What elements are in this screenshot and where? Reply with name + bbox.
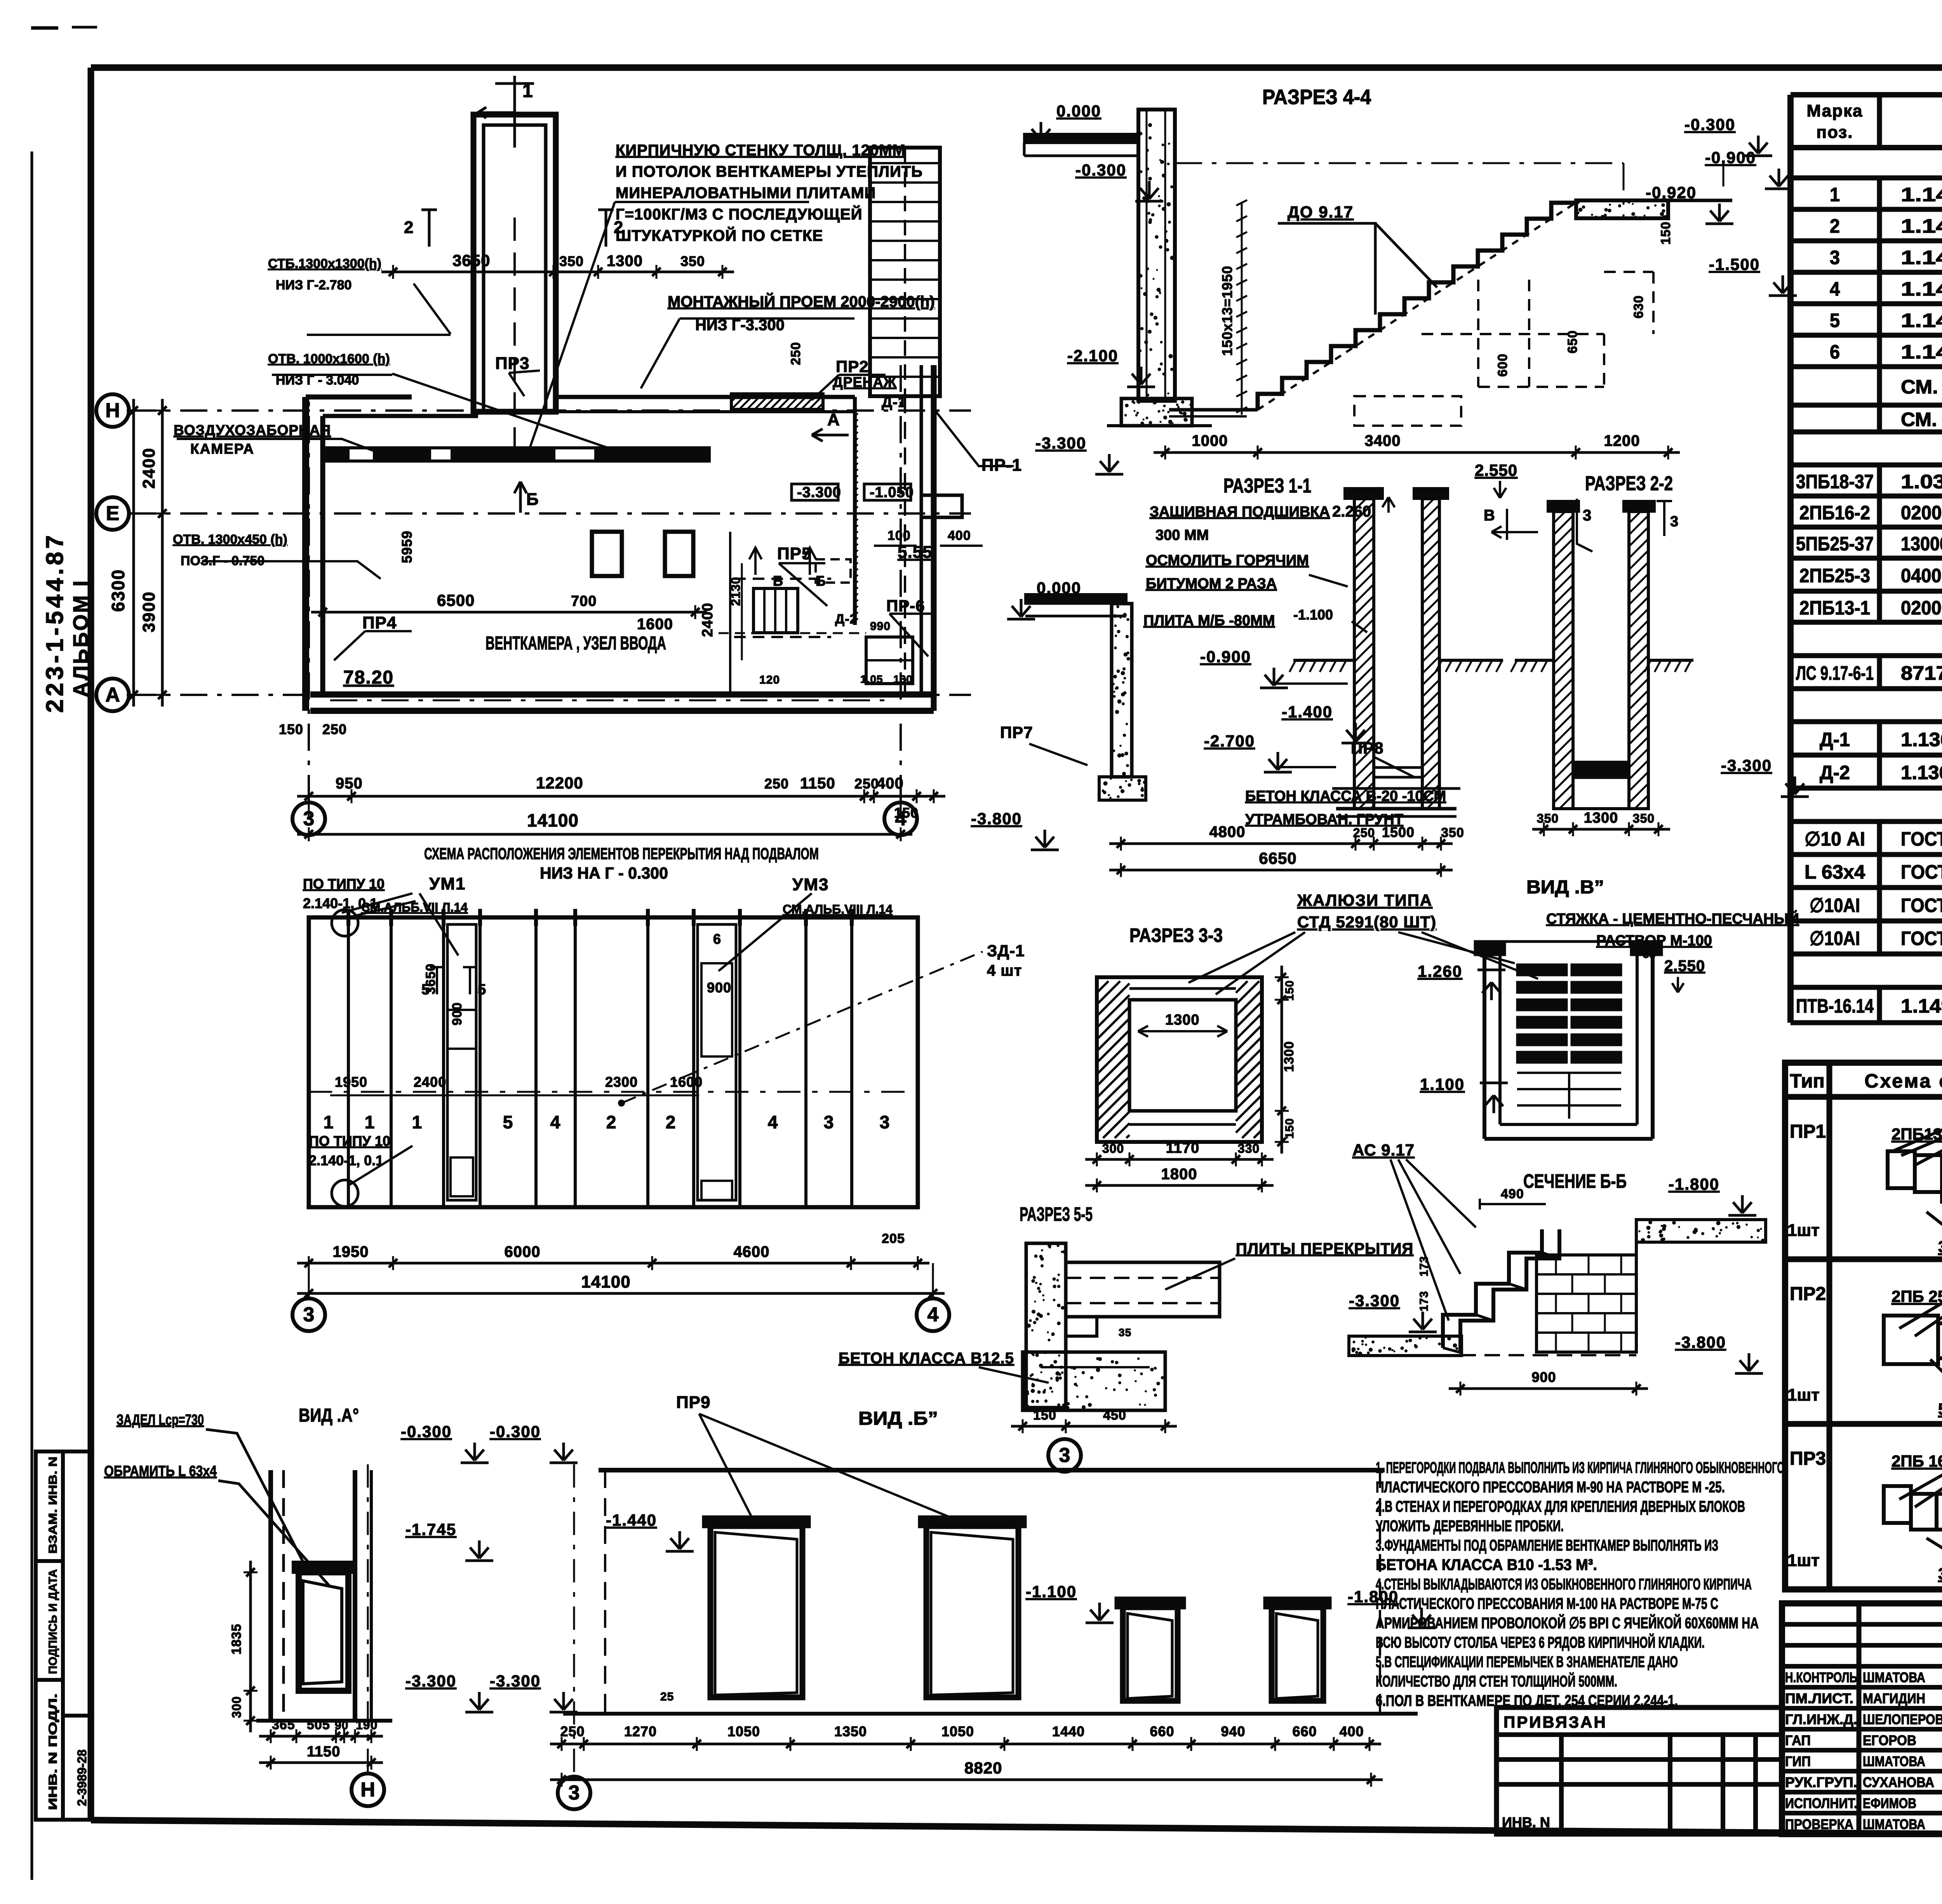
svg-text:150х13=1950: 150х13=1950 [1219, 266, 1235, 356]
svg-text:940: 940 [1221, 1723, 1245, 1739]
svg-text:700: 700 [571, 593, 597, 609]
svg-text:1500: 1500 [1382, 824, 1415, 840]
svg-text:ГОСТ 5781-82: ГОСТ 5781-82 [1901, 928, 1942, 949]
svg-text:130: 130 [893, 673, 913, 685]
svg-text:ГОСТ 8509-72*: ГОСТ 8509-72* [1901, 861, 1942, 883]
svg-text:4600: 4600 [734, 1243, 770, 1260]
svg-text:223-1-544.87: 223-1-544.87 [42, 532, 68, 713]
svg-text:ГИП: ГИП [1785, 1753, 1811, 1769]
svg-text:2: 2 [606, 1112, 617, 1132]
svg-text:поз.: поз. [1817, 123, 1853, 142]
svg-text:8717.0-84* 8717.1-84: 8717.0-84* 8717.1-84 [1901, 662, 1942, 684]
svg-text:250: 250 [764, 776, 789, 792]
svg-text:Б: Б [526, 490, 539, 509]
svg-text:350: 350 [1633, 811, 1655, 825]
svg-text:900: 900 [707, 980, 731, 996]
svg-text:4: 4 [895, 808, 907, 830]
svg-text:БЕТОН КЛАССА В-20 -10СМ: БЕТОН КЛАССА В-20 -10СМ [1245, 788, 1446, 804]
svg-text:ВИД .В”: ВИД .В” [1526, 877, 1604, 898]
svg-text:ВИД .Б”: ВИД .Б” [858, 1408, 938, 1429]
svg-text:ПЛАСТИЧЕСКОГО ПРЕССОВАНИЯ М-9: ПЛАСТИЧЕСКОГО ПРЕССОВАНИЯ М-90 НА РАСТВО… [1376, 1479, 1725, 1496]
svg-text:90: 90 [335, 1719, 348, 1732]
svg-text:РАЗРЕЗ 1-1: РАЗРЕЗ 1-1 [1223, 475, 1311, 497]
svg-text:600: 600 [1495, 353, 1510, 377]
svg-text:3: 3 [303, 1304, 315, 1326]
svg-text:РУК.ГРУП.: РУК.ГРУП. [1785, 1774, 1857, 1790]
svg-text:1: 1 [1830, 184, 1840, 205]
svg-text:Д-2: Д-2 [1820, 762, 1850, 783]
svg-text:СТД 5291(80 ШТ): СТД 5291(80 ШТ) [1297, 913, 1436, 931]
svg-text:150: 150 [1283, 1118, 1296, 1138]
svg-text:ПР1: ПР1 [1790, 1121, 1826, 1142]
svg-text:8820: 8820 [964, 1759, 1002, 1777]
svg-text:2ПБ 16-2 2шт(3шт): 2ПБ 16-2 2шт(3шт) [1892, 1452, 1942, 1470]
svg-text:ШМАТОВА: ШМАТОВА [1863, 1816, 1925, 1832]
svg-text:БЕТОНА КЛАССА В10 -1.53 М³.: БЕТОНА КЛАССА В10 -1.53 М³. [1376, 1556, 1597, 1573]
svg-text:НИЗ НА Г - 0.300: НИЗ НА Г - 0.300 [540, 864, 668, 882]
svg-text:-3.800: -3.800 [1675, 1333, 1726, 1351]
svg-text:2: 2 [404, 218, 414, 237]
svg-text:ПЛИТЫ ПЕРЕКРЫТИЯ: ПЛИТЫ ПЕРЕКРЫТИЯ [1236, 1240, 1413, 1257]
svg-text:-0.300: -0.300 [1075, 161, 1126, 179]
svg-text:6650: 6650 [1259, 849, 1296, 867]
svg-text:1.136-10: 1.136-10 [1901, 762, 1942, 783]
svg-text:НИЗ Г-3.300: НИЗ Г-3.300 [695, 317, 785, 334]
svg-text:УМ1: УМ1 [429, 874, 466, 893]
svg-text:ИСПОЛНИТ.: ИСПОЛНИТ. [1785, 1795, 1857, 1811]
svg-text:1шт: 1шт [1787, 1385, 1820, 1405]
svg-text:ЖАЛЮЗИ ТИПА: ЖАЛЮЗИ ТИПА [1297, 891, 1432, 909]
svg-text:РАСТВОР М-100: РАСТВОР М-100 [1596, 933, 1712, 949]
svg-text:150: 150 [1283, 980, 1296, 1001]
svg-text:3ПБ18-37: 3ПБ18-37 [1938, 1565, 1942, 1583]
svg-text:35: 35 [1643, 948, 1656, 960]
svg-text:350: 350 [680, 253, 705, 269]
svg-text:L 63х4: L 63х4 [1805, 861, 1865, 883]
svg-text:ГОСТ 5781-82: ГОСТ 5781-82 [1901, 895, 1942, 916]
svg-text:1270: 1270 [624, 1723, 657, 1739]
svg-text:950: 950 [336, 775, 363, 792]
svg-text:РАЗРЕЗ 4-4: РАЗРЕЗ 4-4 [1262, 85, 1371, 109]
svg-text:АЛЬБОМ I: АЛЬБОМ I [69, 579, 92, 697]
svg-text:1шт: 1шт [1787, 1551, 1820, 1570]
svg-text:1440: 1440 [1052, 1723, 1085, 1739]
svg-text:173: 173 [1418, 1256, 1430, 1276]
svg-text:Н.КОНТРОЛЬ: Н.КОНТРОЛЬ [1785, 1669, 1857, 1685]
svg-text:150: 150 [279, 721, 303, 737]
svg-text:1300: 1300 [1584, 810, 1618, 826]
svg-text:УМ3: УМ3 [792, 875, 829, 894]
svg-text:Д-2: Д-2 [835, 612, 857, 627]
svg-text:Схема сечения: Схема сечения [1864, 1070, 1942, 1092]
svg-text:2ПБ13-1 2шт(3шт): 2ПБ13-1 2шт(3шт) [1892, 1125, 1942, 1143]
svg-text:5: 5 [421, 982, 430, 998]
svg-text:СМ. АЛЬБОМ VII Л.14: СМ. АЛЬБОМ VII Л.14 [1901, 376, 1942, 398]
svg-text:ПР4: ПР4 [362, 613, 397, 632]
svg-text:3: 3 [303, 808, 315, 830]
svg-text:1.141-1 В.63: 1.141-1 В.63 [1901, 278, 1942, 300]
svg-text:1.149.1-4: 1.149.1-4 [1901, 995, 1942, 1017]
svg-text:2ПБ 25-3 2шт(3шт): 2ПБ 25-3 2шт(3шт) [1892, 1287, 1942, 1305]
svg-text:АС 9.17: АС 9.17 [1352, 1141, 1415, 1159]
svg-text:25: 25 [660, 1690, 674, 1703]
svg-text:330: 330 [1238, 1142, 1260, 1156]
svg-text:4: 4 [927, 1304, 939, 1326]
svg-text:150: 150 [1033, 1408, 1056, 1423]
svg-text:ПР9: ПР9 [676, 1393, 710, 1412]
svg-text:ШТУКАТУРКОЙ ПО СЕТКЕ: ШТУКАТУРКОЙ ПО СЕТКЕ [616, 226, 823, 244]
svg-text:35: 35 [1119, 1326, 1131, 1338]
svg-text:5: 5 [1830, 310, 1840, 331]
svg-text:Е: Е [106, 502, 120, 525]
svg-text:3ПБ18-37: 3ПБ18-37 [1796, 471, 1874, 493]
svg-text:ОСМОЛИТЬ ГОРЯЧИМ: ОСМОЛИТЬ ГОРЯЧИМ [1146, 552, 1309, 569]
svg-text:2.550: 2.550 [1475, 461, 1517, 479]
svg-text:3900: 3900 [139, 591, 158, 632]
svg-text:ВСЮ ВЫСОТУ СТОЛБА ЧЕРЕЗ 6 РЯДО: ВСЮ ВЫСОТУ СТОЛБА ЧЕРЕЗ 6 РЯДОВ КИРПИЧНО… [1376, 1633, 1705, 1651]
svg-text:1: 1 [412, 1112, 423, 1132]
svg-text:ПР-1: ПР-1 [981, 456, 1022, 475]
svg-text:ПО ТИПУ 10: ПО ТИПУ 10 [309, 1133, 390, 1149]
svg-text:4: 4 [1830, 278, 1840, 300]
svg-text:02000-82: 02000-82 [1901, 502, 1942, 524]
svg-text:12200: 12200 [536, 774, 583, 792]
svg-text:ВОЗДУХОЗАБОРНАЯ: ВОЗДУХОЗАБОРНАЯ [174, 422, 331, 438]
svg-text:ВЗАМ. ИНВ. N: ВЗАМ. ИНВ. N [47, 1457, 59, 1554]
svg-text:300: 300 [230, 1696, 244, 1718]
svg-text:505: 505 [307, 1718, 330, 1732]
svg-text:1950: 1950 [333, 1243, 369, 1260]
svg-text:1600: 1600 [670, 1074, 703, 1090]
svg-text:490: 490 [1501, 1187, 1524, 1201]
svg-text:5: 5 [503, 1112, 513, 1132]
svg-text:1350: 1350 [834, 1723, 867, 1739]
svg-text:6: 6 [713, 931, 721, 947]
svg-text:250: 250 [322, 721, 347, 737]
svg-text:120: 120 [759, 674, 780, 686]
svg-text:2.140-1, 0.1: 2.140-1, 0.1 [309, 1152, 383, 1168]
svg-text:БЕТОН КЛАССА В12.5: БЕТОН КЛАССА В12.5 [839, 1350, 1014, 1367]
svg-text:650: 650 [1565, 330, 1580, 353]
svg-text:2ПБ25-3: 2ПБ25-3 [1799, 565, 1870, 587]
svg-text:900: 900 [450, 1002, 465, 1025]
svg-text:900: 900 [1531, 1369, 1556, 1385]
svg-text:НИЗ Г-2.780: НИЗ Г-2.780 [276, 278, 352, 292]
svg-text:350: 350 [559, 253, 584, 269]
svg-text:ВИД .А°: ВИД .А° [299, 1405, 359, 1426]
svg-text:-0.300: -0.300 [401, 1422, 452, 1441]
svg-text:0.000: 0.000 [1056, 102, 1101, 120]
svg-text:ШМАТОВА: ШМАТОВА [1863, 1669, 1925, 1685]
svg-text:-1.500: -1.500 [1709, 255, 1760, 273]
svg-text:3: 3 [880, 1112, 890, 1132]
svg-text:-3.300: -3.300 [1035, 434, 1086, 452]
svg-text:УТРАМБОВАН. ГРУНТ: УТРАМБОВАН. ГРУНТ [1245, 811, 1403, 828]
svg-text:1300: 1300 [607, 252, 643, 270]
svg-text:173: 173 [1418, 1291, 1430, 1311]
svg-text:-3.800: -3.800 [971, 809, 1022, 828]
svg-text:ПРИВЯЗАН: ПРИВЯЗАН [1503, 1713, 1607, 1731]
svg-text:ЗАШИВНАЯ ПОДШИВКА: ЗАШИВНАЯ ПОДШИВКА [1150, 504, 1330, 520]
svg-text:ПОЗ.Г - 0.750: ПОЗ.Г - 0.750 [181, 553, 265, 568]
svg-text:1: 1 [324, 1112, 334, 1132]
svg-text:НИЗ Г - 3.040: НИЗ Г - 3.040 [276, 373, 359, 388]
svg-text:-2.100: -2.100 [1067, 346, 1118, 365]
svg-text:1.100: 1.100 [1420, 1075, 1465, 1093]
svg-text:1150: 1150 [800, 775, 835, 792]
svg-text:Д-1: Д-1 [882, 394, 907, 411]
svg-text:ПР2: ПР2 [1790, 1284, 1826, 1304]
svg-text:ШМАТОВА: ШМАТОВА [1863, 1753, 1925, 1769]
svg-text:-1.800: -1.800 [1669, 1175, 1719, 1193]
svg-text:2130: 2130 [729, 577, 743, 606]
svg-text:2.550: 2.550 [1664, 957, 1705, 975]
svg-text:КАМЕРА: КАМЕРА [190, 441, 254, 457]
svg-text:СУХАНОВА: СУХАНОВА [1863, 1774, 1934, 1790]
svg-text:1: 1 [522, 81, 533, 101]
svg-text:ЕФИМОВ: ЕФИМОВ [1863, 1795, 1916, 1811]
svg-text:РАЗРЕЗ 2-2: РАЗРЕЗ 2-2 [1585, 472, 1673, 495]
svg-text:-1.440: -1.440 [606, 1511, 657, 1529]
svg-text:5959: 5959 [399, 531, 415, 563]
svg-text:А: А [827, 410, 840, 429]
svg-text:-0.900: -0.900 [1705, 148, 1756, 167]
svg-text:5ПБ25-37: 5ПБ25-37 [1796, 533, 1874, 555]
svg-text:78.20: 78.20 [343, 667, 394, 688]
svg-text:14100: 14100 [527, 810, 579, 830]
svg-text:ЗАДЕЛ Lср=730: ЗАДЕЛ Lср=730 [117, 1412, 204, 1428]
svg-text:ПР7: ПР7 [1000, 723, 1033, 741]
svg-text:250: 250 [560, 1723, 585, 1739]
svg-text:ИНВ. N ПОДЛ.: ИНВ. N ПОДЛ. [47, 1693, 59, 1810]
svg-text:660: 660 [1292, 1723, 1317, 1739]
svg-text:КОЛИЧЕСТВО ДЛЯ СТЕН ТОЛЩИНОЙ: КОЛИЧЕСТВО ДЛЯ СТЕН ТОЛЩИНОЙ 500ММ. [1376, 1672, 1617, 1690]
svg-text:БИТУМОМ 2 РАЗА: БИТУМОМ 2 РАЗА [1146, 576, 1277, 592]
svg-text:5.В СПЕЦИФИКАЦИИ ПЕРЕМЫЧЕК В З: 5.В СПЕЦИФИКАЦИИ ПЕРЕМЫЧЕК В ЗНАМЕНАТЕЛЕ… [1376, 1653, 1678, 1671]
svg-text:6: 6 [1830, 341, 1840, 363]
svg-text:990: 990 [870, 620, 891, 633]
svg-text:СХЕМА РАСПОЛОЖЕНИЯ ЭЛЕМЕНТОВ П: СХЕМА РАСПОЛОЖЕНИЯ ЭЛЕМЕНТОВ ПЕРЕКРЫТИЯ … [424, 844, 819, 863]
svg-text:-3.300: -3.300 [490, 1672, 541, 1690]
svg-text:5ПБ 25-37: 5ПБ 25-37 [1938, 1400, 1942, 1418]
svg-text:5.55: 5.55 [898, 543, 933, 562]
svg-text:ПР8: ПР8 [1351, 739, 1384, 757]
svg-text:ПО ТИПУ 10: ПО ТИПУ 10 [303, 876, 385, 892]
svg-text:6.ПОЛ В ВЕНТКАМЕРЕ ПО ДЕТ. 254: 6.ПОЛ В ВЕНТКАМЕРЕ ПО ДЕТ. 254 СЕРИИ 2.2… [1376, 1692, 1678, 1709]
svg-text:-1.100: -1.100 [1293, 607, 1333, 623]
svg-text:ГОСТ 5781-82: ГОСТ 5781-82 [1901, 828, 1942, 850]
svg-text:МИНЕРАЛОВАТНЫМИ ПЛИТАМИ: МИНЕРАЛОВАТНЫМИ ПЛИТАМИ [616, 184, 876, 202]
svg-text:-0.300: -0.300 [490, 1422, 541, 1441]
svg-text:-1.050: -1.050 [870, 484, 914, 501]
svg-text:1050: 1050 [941, 1723, 974, 1739]
svg-text:1. ПЕРЕГОРОДКИ ПОДВАЛА ВЫПОЛНИ: 1. ПЕРЕГОРОДКИ ПОДВАЛА ВЫПОЛНИТЬ ИЗ КИРП… [1376, 1459, 1784, 1476]
svg-text:6000: 6000 [505, 1243, 541, 1260]
svg-text:1.038.1-1.1 070000-04: 1.038.1-1.1 070000-04 [1901, 471, 1942, 493]
svg-text:-3.300: -3.300 [405, 1672, 456, 1690]
svg-text:Н: Н [105, 399, 120, 422]
svg-text:Д-1: Д-1 [1820, 729, 1850, 750]
svg-text:1170: 1170 [1166, 1140, 1199, 1156]
svg-text:1.260: 1.260 [1418, 962, 1462, 980]
svg-text:1.136.5-19: 1.136.5-19 [1901, 729, 1942, 750]
svg-text:2400: 2400 [139, 447, 158, 489]
svg-text:3: 3 [1830, 247, 1840, 268]
svg-text:4 шт: 4 шт [987, 962, 1022, 979]
svg-text:3400: 3400 [1365, 432, 1401, 449]
svg-text:ОТВ. 1000х1600 (h): ОТВ. 1000х1600 (h) [268, 352, 390, 366]
svg-text:ПОДПИСЬ И ДАТА: ПОДПИСЬ И ДАТА [47, 1569, 59, 1674]
svg-text:1.144-1 В.63: 1.144-1 В.63 [1901, 341, 1942, 363]
svg-text:1800: 1800 [1161, 1166, 1197, 1183]
svg-text:МОНТАЖНЫЙ ПРОЕМ 2000-2900(h): МОНТАЖНЫЙ ПРОЕМ 2000-2900(h) [668, 292, 935, 310]
svg-text:2-3989-28: 2-3989-28 [75, 1749, 89, 1806]
svg-text:2.В СТЕНАХ И ПЕРЕГОРОДКАХ ДЛЯ: 2.В СТЕНАХ И ПЕРЕГОРОДКАХ ДЛЯ КРЕПЛЕНИЯ … [1376, 1498, 1745, 1515]
svg-text:Марка: Марка [1806, 101, 1863, 120]
svg-text:-1.100: -1.100 [1026, 1582, 1077, 1601]
svg-text:150: 150 [1658, 221, 1673, 245]
svg-text:Б: Б [773, 573, 783, 589]
svg-text:2ПБ13-1: 2ПБ13-1 [1799, 597, 1870, 619]
svg-text:1000: 1000 [1192, 432, 1228, 449]
svg-text:-3.300: -3.300 [797, 484, 841, 501]
svg-text:1835: 1835 [229, 1624, 244, 1655]
svg-text:ГАП: ГАП [1785, 1732, 1811, 1748]
svg-text:ДРЕНАЖ: ДРЕНАЖ [833, 374, 896, 390]
svg-text:1.05: 1.05 [860, 673, 883, 685]
svg-text:СТБ.1300х1300(h): СТБ.1300х1300(h) [268, 256, 381, 271]
svg-text:2: 2 [1830, 215, 1840, 237]
svg-text:1шт: 1шт [1787, 1221, 1820, 1240]
svg-text:ПЛАСТИЧЕСКОГО ПРЕССОВАНИЯ М-10: ПЛАСТИЧЕСКОГО ПРЕССОВАНИЯ М-100 НА РАСТВ… [1376, 1595, 1718, 1612]
svg-text:ИНВ. N: ИНВ. N [1502, 1814, 1550, 1830]
svg-text:3: 3 [1670, 513, 1679, 530]
svg-text:СТЯЖКА - ЦЕМЕНТНО-ПЕСЧАНЫЙ: СТЯЖКА - ЦЕМЕНТНО-ПЕСЧАНЫЙ [1546, 910, 1799, 927]
svg-text:1600: 1600 [637, 616, 673, 633]
svg-text:∅10 АI: ∅10 АI [1805, 828, 1865, 850]
svg-text:-1.400: -1.400 [1282, 703, 1333, 721]
svg-text:040010-82: 040010-82 [1901, 565, 1942, 587]
svg-text:3.ФУНДАМЕНТЫ ПОД ОБРАМЛЕНИЕ ВЕ: 3.ФУНДАМЕНТЫ ПОД ОБРАМЛЕНИЕ ВЕНТКАМЕР ВЫ… [1376, 1537, 1718, 1554]
svg-text:ОТВ. 1300х450 (h): ОТВ. 1300х450 (h) [173, 532, 287, 547]
svg-text:2: 2 [666, 1112, 676, 1132]
svg-text:300: 300 [1102, 1142, 1124, 1156]
svg-text:-1.745: -1.745 [405, 1520, 456, 1539]
svg-text:190: 190 [356, 1718, 378, 1732]
svg-text:ДО 9.17: ДО 9.17 [1288, 203, 1354, 221]
svg-text:СЕЧЕНИЕ Б-Б: СЕЧЕНИЕ Б-Б [1523, 1170, 1627, 1192]
svg-text:2ПБ16-2: 2ПБ16-2 [1799, 502, 1870, 524]
svg-text:Г=100КГ/М3 С ПОСЛЕДУЮЩЕЙ: Г=100КГ/М3 С ПОСЛЕДУЮЩЕЙ [616, 205, 862, 223]
svg-text:250: 250 [788, 342, 803, 365]
svg-text:350: 350 [1441, 825, 1464, 840]
svg-text:3: 3 [1059, 1444, 1070, 1467]
svg-text:-0.920: -0.920 [1646, 183, 1697, 202]
svg-text:-0.900: -0.900 [1200, 647, 1251, 666]
svg-text:1: 1 [365, 1112, 375, 1132]
svg-text:2300: 2300 [605, 1074, 638, 1090]
svg-text:1.141-1 В.63: 1.141-1 В.63 [1901, 310, 1942, 331]
svg-text:400: 400 [1339, 1723, 1364, 1739]
svg-text:4: 4 [550, 1112, 561, 1132]
svg-text:И ПОТОЛОК ВЕНТКАМЕРЫ УТЕПЛИТЬ: И ПОТОЛОК ВЕНТКАМЕРЫ УТЕПЛИТЬ [616, 163, 923, 180]
svg-text:350: 350 [1537, 811, 1559, 825]
svg-text:4.СТЕНЫ ВЫКЛАДЫВАЮТСЯ ИЗ ОБЫКН: 4.СТЕНЫ ВЫКЛАДЫВАЮТСЯ ИЗ ОБЫКНОВЕННОГО Г… [1376, 1576, 1752, 1593]
svg-text:ГЛ.ИНЖ.Д.: ГЛ.ИНЖ.Д. [1785, 1711, 1857, 1727]
svg-text:2400: 2400 [414, 1074, 446, 1090]
svg-text:ЕГОРОВ: ЕГОРОВ [1863, 1732, 1916, 1748]
svg-text:1300: 1300 [1282, 1041, 1296, 1072]
svg-text:400: 400 [877, 775, 904, 792]
svg-text:6500: 6500 [437, 591, 475, 609]
svg-text:3: 3 [824, 1112, 834, 1132]
svg-text:300 ММ: 300 ММ [1155, 527, 1209, 543]
svg-text:630: 630 [1631, 295, 1646, 318]
svg-text:365: 365 [272, 1718, 295, 1732]
svg-text:4: 4 [768, 1112, 778, 1132]
svg-text:ПР-6: ПР-6 [886, 597, 925, 615]
svg-text:1950: 1950 [335, 1074, 367, 1090]
svg-text:Б: Б [816, 573, 826, 589]
svg-text:2.140-1, 0.1: 2.140-1, 0.1 [303, 895, 378, 911]
svg-text:УЛОЖИТЬ ДЕРЕВЯННЫЕ ПРОБКИ.: УЛОЖИТЬ ДЕРЕВЯННЫЕ ПРОБКИ. [1376, 1518, 1564, 1535]
svg-text:ПР3: ПР3 [1790, 1448, 1826, 1469]
svg-text:3: 3 [569, 1782, 580, 1804]
svg-text:ПТВ-16.14: ПТВ-16.14 [1796, 995, 1874, 1017]
svg-text:РАЗРЕЗ 5-5: РАЗРЕЗ 5-5 [1020, 1203, 1093, 1225]
svg-text:В: В [1484, 507, 1495, 524]
svg-text:ПМ.ЛИСТ.: ПМ.ЛИСТ. [1785, 1690, 1853, 1706]
svg-text:РАЗРЕЗ 3-3: РАЗРЕЗ 3-3 [1129, 924, 1223, 946]
svg-text:250: 250 [1353, 826, 1375, 840]
svg-text:1.141-1 В.63: 1.141-1 В.63 [1901, 247, 1942, 268]
svg-text:А: А [105, 684, 120, 706]
svg-text:250: 250 [854, 776, 879, 792]
svg-text:3650: 3650 [452, 251, 490, 270]
svg-text:∅10АI: ∅10АI [1810, 928, 1860, 949]
svg-text:4800: 4800 [1209, 823, 1246, 841]
svg-text:ЗД-1: ЗД-1 [987, 942, 1025, 960]
svg-text:14100: 14100 [581, 1272, 630, 1291]
svg-text:0.000: 0.000 [1037, 579, 1081, 597]
svg-text:ВЕНТКАМЕРА , УЗЕЛ ВВОДА: ВЕНТКАМЕРА , УЗЕЛ ВВОДА [486, 633, 666, 654]
svg-text:АРМИРОВАНИЕМ ПРОВОЛОКОЙ ∅5 ВРI: АРМИРОВАНИЕМ ПРОВОЛОКОЙ ∅5 ВРI С ЯЧЕЙКОЙ… [1376, 1614, 1759, 1632]
svg-text:-3.300: -3.300 [1721, 756, 1772, 774]
svg-text:6300: 6300 [108, 569, 128, 612]
svg-text:ПЛИТА М/Б -80ММ: ПЛИТА М/Б -80ММ [1143, 613, 1275, 629]
svg-text:400: 400 [948, 528, 971, 543]
svg-text:-3.300: -3.300 [1349, 1291, 1400, 1310]
svg-text:ОБРАМИТЬ L 63х4: ОБРАМИТЬ L 63х4 [104, 1463, 217, 1479]
svg-text:Н: Н [360, 1779, 375, 1801]
svg-text:ПР5: ПР5 [777, 544, 811, 563]
svg-text:СМ. АЛЬБОМ VIII Л.14: СМ. АЛЬБОМ VIII Л.14 [1901, 409, 1942, 430]
svg-text:3ПБ13-37: 3ПБ13-37 [1938, 1237, 1942, 1256]
svg-text:СМ.АЛЬБ.VIII Л.14: СМ.АЛЬБ.VIII Л.14 [783, 902, 893, 916]
svg-text:100: 100 [887, 528, 911, 543]
svg-text:ПР3: ПР3 [495, 354, 529, 373]
svg-text:ЛС 9.17-6-1: ЛС 9.17-6-1 [1796, 662, 1874, 684]
svg-text:5: 5 [478, 982, 486, 998]
svg-text:-0.300: -0.300 [1684, 115, 1735, 134]
svg-text:Тип: Тип [1790, 1070, 1825, 1092]
svg-text:ПРОВЕРКА: ПРОВЕРКА [1785, 1816, 1853, 1832]
svg-text:1200: 1200 [1604, 432, 1640, 449]
svg-text:КИРПИЧНУЮ СТЕНКУ ТОЛЩ. 120ММ: КИРПИЧНУЮ СТЕНКУ ТОЛЩ. 120ММ [616, 142, 906, 159]
svg-text:020000-02: 020000-02 [1901, 597, 1942, 619]
svg-text:205: 205 [882, 1231, 905, 1246]
svg-text:ШЕЛОПЕРОВА: ШЕЛОПЕРОВА [1863, 1711, 1942, 1727]
